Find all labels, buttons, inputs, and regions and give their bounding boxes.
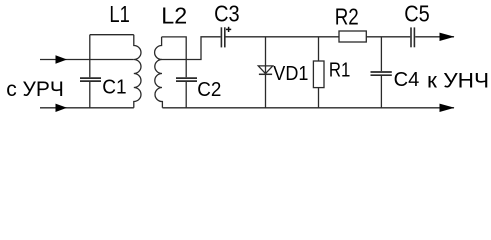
svg-text:C3: C3 — [214, 0, 240, 27]
svg-text:R2: R2 — [335, 4, 359, 31]
svg-text:к УНЧ: к УНЧ — [427, 68, 489, 92]
svg-text:R1: R1 — [329, 58, 350, 81]
svg-text:C2: C2 — [197, 78, 221, 101]
svg-text:C4: C4 — [394, 69, 420, 91]
svg-text:L1: L1 — [109, 2, 129, 28]
svg-text:C5: C5 — [404, 0, 430, 27]
svg-text:L2: L2 — [161, 2, 187, 28]
svg-text:VD1: VD1 — [273, 63, 308, 85]
svg-text:C1: C1 — [102, 76, 126, 99]
svg-text:с УРЧ: с УРЧ — [6, 78, 64, 101]
